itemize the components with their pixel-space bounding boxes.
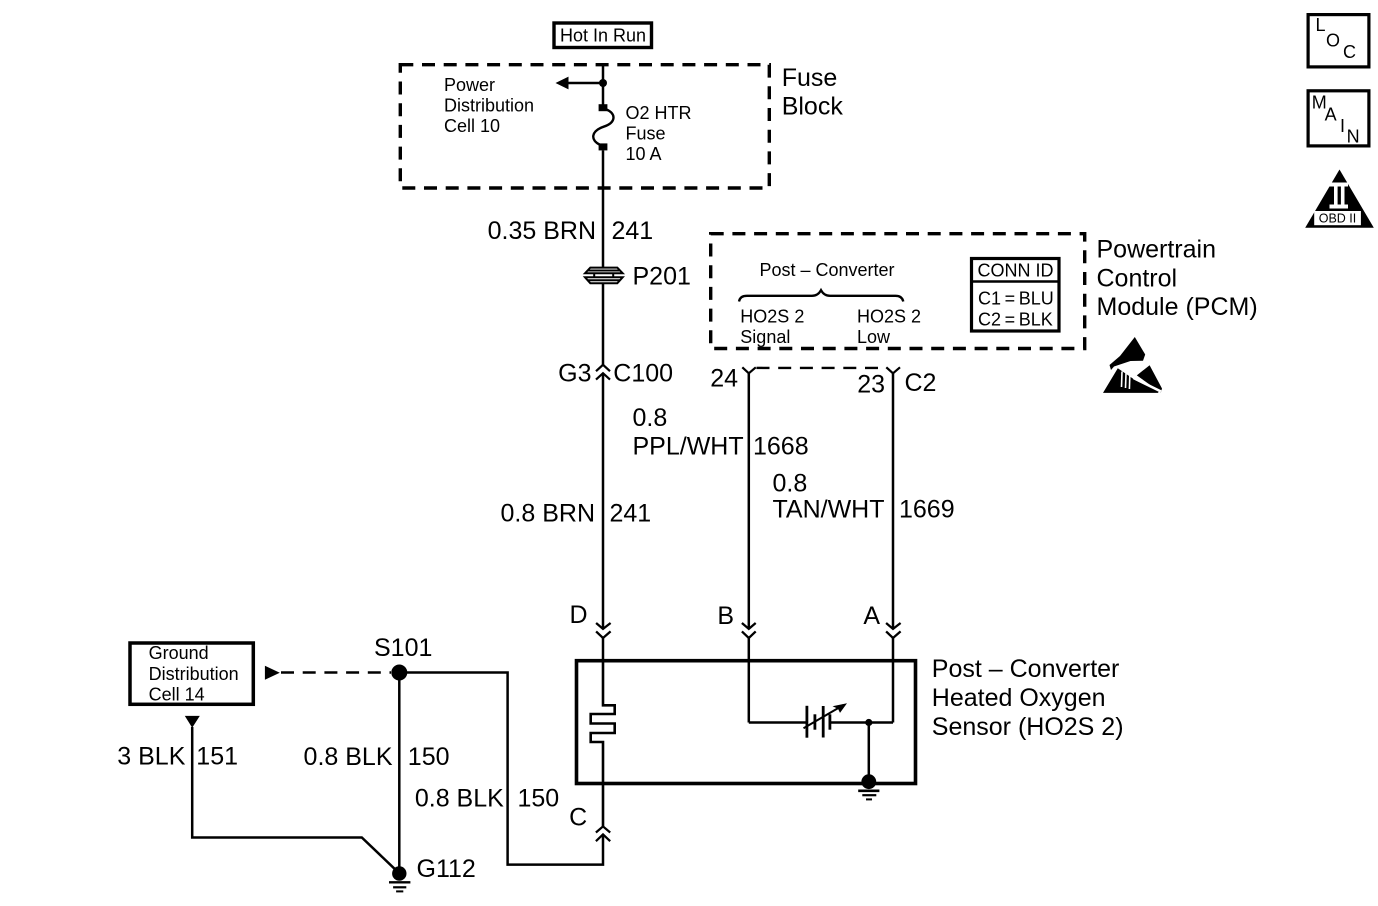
svg-text:Cell 14: Cell 14	[149, 685, 205, 705]
svg-text:O2 HTR: O2 HTR	[626, 103, 692, 123]
MAIN reference box	[1308, 91, 1369, 146]
wire: pin 23 to sensor pin A	[892, 373, 895, 629]
fuse O2 HTR 10 A	[599, 104, 608, 111]
wire: 3 BLK branch	[192, 727, 394, 869]
svg-text:G112: G112	[417, 855, 476, 883]
svg-text:C1 = BLU: C1 = BLU	[978, 289, 1054, 309]
svg-text:Power: Power	[444, 75, 495, 95]
wire: B into sensor element	[749, 721, 807, 724]
HO2S 2 sensor box	[577, 661, 916, 784]
svg-text:0.8 BLK: 0.8 BLK	[304, 743, 393, 771]
svg-text:CONN ID: CONN ID	[978, 261, 1054, 281]
wire: arrow to power distribution	[566, 82, 603, 85]
sensor case ground	[861, 774, 876, 789]
arrow to ground distribution	[265, 666, 280, 680]
svg-text:150: 150	[408, 743, 450, 771]
svg-text:150: 150	[518, 785, 560, 813]
svg-text:HO2S 2: HO2S 2	[740, 307, 804, 327]
svg-text:OBD II: OBD II	[1319, 211, 1357, 225]
sensor cell plates	[806, 706, 809, 738]
svg-text:A: A	[863, 602, 880, 630]
svg-text:Sensor (HO2S 2): Sensor (HO2S 2)	[932, 713, 1124, 741]
svg-text:TAN/WHT: TAN/WHT	[773, 496, 885, 524]
wire: pin 24 to sensor pin B	[748, 373, 751, 629]
svg-text:C2: C2	[905, 369, 937, 397]
svg-text:B: B	[717, 602, 734, 630]
svg-text:PPL/WHT: PPL/WHT	[633, 433, 744, 461]
LOC reference box	[1308, 15, 1369, 67]
pin 23 Y connector	[886, 367, 900, 373]
node: feed junction dot	[599, 79, 607, 87]
splice S101	[391, 665, 407, 681]
svg-text:Heated Oxygen: Heated Oxygen	[932, 684, 1106, 712]
wire: C down and left to S101 branch	[399, 673, 603, 865]
Hot In Run label box	[554, 23, 652, 48]
svg-text:C: C	[1343, 42, 1356, 62]
wire: fuse to P201	[602, 150, 605, 267]
wire: S101 to G112	[398, 673, 401, 870]
pin D arrow into sensor	[596, 623, 611, 629]
pin B arrow into sensor	[742, 623, 756, 629]
svg-text:C100: C100	[613, 359, 673, 387]
svg-text:0.8: 0.8	[773, 469, 808, 497]
svg-text:1668: 1668	[753, 433, 809, 461]
svg-text:241: 241	[612, 217, 654, 245]
svg-text:Fuse: Fuse	[626, 124, 666, 144]
svg-text:241: 241	[610, 500, 652, 528]
svg-text:Ground: Ground	[149, 643, 209, 663]
svg-text:D: D	[569, 601, 587, 629]
svg-text:Post – Converter: Post – Converter	[932, 655, 1120, 683]
ground G112	[392, 866, 406, 880]
connector C100 (G3) chevrons	[596, 365, 610, 380]
svg-text:0.8: 0.8	[633, 404, 668, 432]
svg-text:151: 151	[196, 743, 238, 771]
pin 24 Y connector	[742, 367, 756, 373]
splice pass-through P201	[585, 268, 623, 284]
heater element (meander)	[591, 662, 615, 826]
pin A arrow into sensor	[886, 623, 901, 629]
wire: fuse box top to fuse	[602, 65, 605, 105]
fuse block dashed box	[400, 65, 769, 188]
wire: cell to A	[831, 721, 894, 724]
svg-text:Low: Low	[857, 327, 891, 347]
arrow from ground distribution down	[185, 716, 200, 728]
node: sensor internal junction	[865, 719, 872, 726]
svg-text:HO2S 2: HO2S 2	[857, 307, 921, 327]
svg-text:C: C	[569, 803, 587, 831]
svg-text:P201: P201	[633, 263, 691, 291]
svg-text:G3: G3	[558, 359, 591, 387]
svg-text:24: 24	[710, 365, 738, 393]
svg-text:Distribution: Distribution	[149, 664, 239, 684]
svg-text:Post – Converter: Post – Converter	[759, 260, 894, 280]
svg-text:23: 23	[857, 371, 885, 399]
svg-text:0.8 BLK: 0.8 BLK	[415, 785, 504, 813]
svg-text:L: L	[1316, 15, 1326, 35]
svg-text:0.35 BRN: 0.35 BRN	[488, 217, 596, 245]
CONN ID table	[972, 259, 1060, 332]
svg-text:Cell 10: Cell 10	[444, 116, 500, 136]
svg-text:Block: Block	[782, 93, 844, 121]
svg-text:Powertrain: Powertrain	[1097, 236, 1217, 264]
dashed wire between pins 24 and 23	[757, 367, 887, 369]
svg-text:3 BLK: 3 BLK	[117, 743, 185, 771]
dashed wire to ground distribution	[281, 671, 391, 674]
wire: junction to case ground	[868, 723, 871, 779]
svg-text:A: A	[1325, 104, 1337, 124]
svg-text:I: I	[1340, 116, 1345, 136]
svg-text:O: O	[1326, 31, 1340, 51]
svg-text:N: N	[1347, 126, 1360, 146]
ground distribution box	[130, 643, 253, 704]
svg-text:Control: Control	[1097, 264, 1178, 292]
svg-text:10 A: 10 A	[626, 144, 662, 164]
variable arrow across sensor cell	[804, 705, 844, 728]
connector C chevrons	[596, 826, 610, 832]
brace	[739, 290, 903, 301]
svg-text:Fuse: Fuse	[782, 64, 838, 92]
wire: P201 to C100	[602, 284, 605, 365]
svg-text:Signal: Signal	[740, 327, 790, 347]
PCM dashed box	[711, 234, 1085, 349]
svg-text:S101: S101	[374, 634, 432, 662]
svg-text:Distribution: Distribution	[444, 96, 534, 116]
wire: C100 to sensor pin D	[602, 373, 605, 628]
svg-text:Module (PCM): Module (PCM)	[1097, 293, 1258, 321]
OBD II triangle symbol	[1305, 170, 1374, 228]
svg-text:Hot In Run: Hot In Run	[560, 26, 646, 46]
svg-text:1669: 1669	[899, 496, 955, 524]
ESD sensitive device symbol	[1103, 337, 1162, 393]
svg-text:C2 = BLK: C2 = BLK	[978, 310, 1053, 330]
svg-text:0.8 BRN: 0.8 BRN	[501, 500, 595, 528]
